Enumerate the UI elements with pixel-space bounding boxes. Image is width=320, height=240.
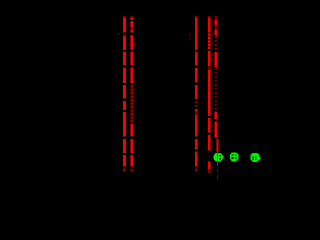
trace T5 (right group, dotted track upper run) — [215, 16, 217, 138]
trace T1 (left group, left dashed track) — [123, 16, 126, 172]
pad P1 (through-hole pad with crosshair) — [213, 153, 223, 162]
stitch marks right of trace T4 — [211, 31, 212, 98]
board background — [0, 0, 291, 208]
pad P2 (annular pad with crosshair) — [230, 152, 238, 161]
pad P3 (through-hole pad with crosshair) — [251, 153, 261, 162]
trace T5 jog (lower run) — [216, 139, 218, 151]
tick left of trace T1 — [119, 33, 121, 35]
stitch marks right of trace T2 — [133, 44, 136, 122]
stitch marks left of trace T3 — [189, 34, 190, 40]
trace T4 (right group, middle dashed track) — [208, 16, 211, 173]
trace T3 (right group, left dashed track) — [195, 16, 198, 171]
trace T2 (left group, right dashed track) — [130, 16, 133, 172]
trace T6 (thin dashed line through pad P1) — [217, 151, 218, 179]
